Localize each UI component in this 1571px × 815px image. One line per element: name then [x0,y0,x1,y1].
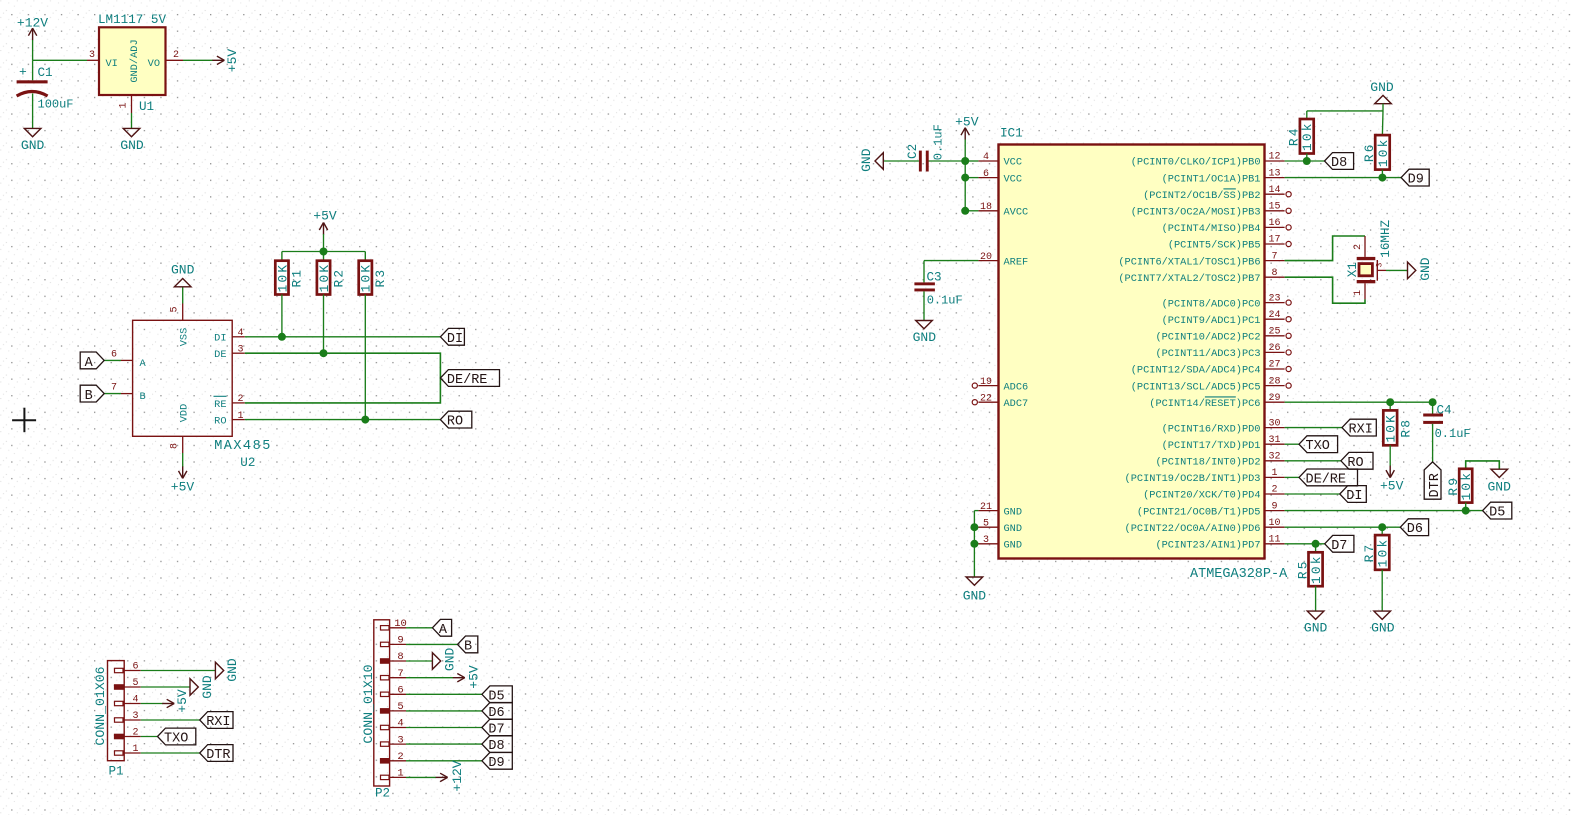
svg-text:10K: 10K [317,263,332,293]
svg-text:B: B [85,389,93,404]
svg-text:GND: GND [1004,523,1023,535]
svg-text:31: 31 [1268,435,1280,446]
svg-text:GND: GND [1418,257,1433,281]
svg-text:(PCINT0/CLKO/ICP1)PB0: (PCINT0/CLKO/ICP1)PB0 [1131,157,1261,169]
svg-text:R2: R2 [331,268,346,288]
svg-text:+5V: +5V [955,115,979,130]
svg-text:C4: C4 [1437,404,1452,418]
svg-text:19: 19 [980,377,992,388]
svg-text:18: 18 [980,202,992,213]
svg-text:C1: C1 [38,66,53,80]
svg-text:DE/RE: DE/RE [447,373,488,388]
svg-text:3: 3 [132,711,138,722]
svg-text:(PCINT18/INT0)PD2: (PCINT18/INT0)PD2 [1155,457,1260,469]
svg-text:GND: GND [1371,621,1395,636]
svg-text:VSS: VSS [179,328,191,347]
svg-text:DE: DE [214,349,226,361]
svg-text:(PCINT21/OC0B/T1)PD5: (PCINT21/OC0B/T1)PD5 [1137,506,1261,518]
svg-text:AREF: AREF [1004,256,1029,268]
svg-text:(PCINT22/OC0A/AIN0)PD6: (PCINT22/OC0A/AIN0)PD6 [1125,523,1261,535]
svg-text:16MHZ: 16MHZ [1379,219,1393,257]
svg-text:10k: 10k [1300,121,1315,151]
svg-text:1: 1 [119,102,130,108]
svg-text:D5: D5 [1489,506,1505,521]
svg-text:P1: P1 [109,765,124,779]
svg-text:2: 2 [173,50,179,61]
svg-text:GND: GND [1304,621,1328,636]
svg-text:10K: 10K [275,263,290,293]
svg-text:+5V: +5V [467,665,482,689]
svg-text:6: 6 [397,685,403,697]
svg-text:VDD: VDD [179,404,191,423]
svg-text:10: 10 [394,618,407,630]
svg-text:5: 5 [983,518,989,529]
svg-text:(PCINT12/SDA/ADC4)PC4: (PCINT12/SDA/ADC4)PC4 [1131,365,1261,377]
svg-text:32: 32 [1268,452,1280,463]
svg-text:3: 3 [983,535,989,546]
svg-text:D6: D6 [1407,522,1423,537]
svg-text:13: 13 [1268,168,1280,179]
svg-text:0.1uF: 0.1uF [927,294,963,308]
svg-text:(PCINT16/RXD)PD0: (PCINT16/RXD)PD0 [1162,423,1261,435]
svg-text:5: 5 [397,701,403,713]
svg-text:D7: D7 [1331,539,1347,554]
svg-text:U1: U1 [139,100,154,114]
svg-text:GND: GND [443,648,458,672]
svg-text:10K: 10K [359,263,374,293]
svg-text:R9: R9 [1446,476,1461,496]
svg-text:10: 10 [1268,518,1280,529]
svg-text:R8: R8 [1398,418,1413,438]
svg-text:R1: R1 [290,268,305,288]
svg-text:8: 8 [1271,268,1277,279]
svg-text:2: 2 [237,394,243,405]
svg-text:3: 3 [1376,262,1385,267]
svg-text:GND: GND [1370,80,1394,95]
svg-text:GND: GND [1004,506,1023,518]
svg-text:(PCINT17/TXD)PD1: (PCINT17/TXD)PD1 [1162,440,1261,452]
svg-text:(PCINT11/ADC3)PC3: (PCINT11/ADC3)PC3 [1155,348,1260,360]
svg-text:U2: U2 [240,456,255,470]
svg-text:6: 6 [983,169,989,180]
svg-text:1: 1 [397,768,403,780]
svg-text:4: 4 [237,328,243,339]
svg-text:(PCINT23/AIN1)PD7: (PCINT23/AIN1)PD7 [1155,540,1260,552]
svg-text:R6: R6 [1362,142,1377,162]
svg-text:7: 7 [397,668,403,680]
svg-text:22: 22 [980,393,992,404]
svg-text:(PCINT7/XTAL2/TOSC2)PB7: (PCINT7/XTAL2/TOSC2)PB7 [1118,273,1260,285]
svg-text:VO: VO [148,58,160,70]
svg-text:RO: RO [447,415,463,430]
svg-text:DTR: DTR [1428,473,1443,497]
svg-text:VCC: VCC [1004,173,1023,185]
svg-text:RXI: RXI [206,715,230,730]
svg-text:(PCINT9/ADC1)PC1: (PCINT9/ADC1)PC1 [1162,315,1261,327]
svg-text:DE/RE: DE/RE [1306,472,1347,487]
svg-text:A: A [85,356,94,371]
svg-text:27: 27 [1268,360,1280,371]
svg-text:2: 2 [1353,244,1364,250]
svg-text:DI: DI [214,333,226,345]
svg-text:17: 17 [1268,235,1280,246]
svg-text:15: 15 [1268,202,1280,213]
svg-text:GND: GND [859,148,874,172]
svg-text:IC1: IC1 [1000,127,1023,141]
svg-text:ADC6: ADC6 [1004,381,1029,393]
svg-text:B: B [464,639,472,654]
svg-text:GND: GND [1487,480,1511,495]
svg-text:4: 4 [983,152,989,163]
svg-text:4: 4 [132,695,138,706]
svg-text:2: 2 [397,751,403,763]
svg-text:1: 1 [1353,290,1364,296]
svg-text:3: 3 [237,344,243,355]
svg-text:TXO: TXO [1306,439,1330,454]
svg-text:+5V: +5V [171,480,195,495]
svg-text:30: 30 [1268,418,1280,429]
svg-text:20: 20 [980,252,992,263]
svg-text:14: 14 [1268,185,1280,196]
svg-text:10k: 10k [1309,554,1324,584]
svg-text:1: 1 [237,411,243,422]
svg-text:R3: R3 [373,268,388,288]
svg-text:0.1uF: 0.1uF [932,124,946,160]
svg-text:4: 4 [397,718,403,730]
svg-text:(PCINT5/SCK)PB5: (PCINT5/SCK)PB5 [1168,240,1261,252]
svg-text:(PCINT8/ADC0)PC0: (PCINT8/ADC0)PC0 [1162,298,1261,310]
svg-text:11: 11 [1268,535,1280,546]
svg-text:DTR: DTR [206,748,230,763]
svg-text:R7: R7 [1362,543,1377,563]
svg-text:5: 5 [132,678,138,689]
svg-text:3: 3 [89,50,95,61]
svg-text:(PCINT14/RESET)PC6: (PCINT14/RESET)PC6 [1149,398,1260,410]
svg-text:GND: GND [225,658,240,682]
svg-text:25: 25 [1268,327,1280,338]
svg-text:6: 6 [132,662,138,673]
svg-text:8: 8 [170,443,181,449]
svg-text:10k: 10k [1459,471,1474,501]
svg-text:28: 28 [1268,376,1280,387]
svg-text:D9: D9 [1408,173,1424,188]
svg-text:+5V: +5V [225,49,240,73]
svg-text:+5V: +5V [175,689,190,713]
svg-text:ATMEGA328P-A: ATMEGA328P-A [1190,567,1288,582]
svg-text:23: 23 [1268,293,1280,304]
svg-text:+: + [19,65,27,80]
svg-text:2: 2 [1271,485,1277,496]
svg-text:GND: GND [963,589,987,604]
svg-text:(PCINT1/OC1A)PB1: (PCINT1/OC1A)PB1 [1162,173,1261,185]
svg-text:(PCINT13/SCL/ADC5)PC5: (PCINT13/SCL/ADC5)PC5 [1131,381,1261,393]
svg-text:D8: D8 [1331,156,1347,171]
svg-text:(PCINT6/XTAL1/TOSC1)PB6: (PCINT6/XTAL1/TOSC1)PB6 [1118,256,1260,268]
svg-text:DI: DI [1346,489,1362,504]
svg-text:C2: C2 [906,144,920,159]
svg-text:5: 5 [170,306,181,312]
svg-text:LM1117 5V: LM1117 5V [98,13,166,27]
svg-text:(PCINT3/OC2A/MOSI)PB3: (PCINT3/OC2A/MOSI)PB3 [1131,207,1261,219]
svg-text:GND: GND [120,138,144,153]
svg-text:2: 2 [132,728,138,739]
svg-text:(PCINT19/OC2B/INT1)PD3: (PCINT19/OC2B/INT1)PD3 [1125,473,1261,485]
svg-text:GND: GND [171,262,195,277]
svg-text:A: A [140,358,147,370]
svg-text:(PCINT20/XCK/T0)PD4: (PCINT20/XCK/T0)PD4 [1143,490,1260,502]
svg-text:RXI: RXI [1349,423,1373,438]
svg-text:+12V: +12V [450,760,465,791]
svg-text:7: 7 [1271,251,1277,262]
svg-text:CONN_01X06: CONN_01X06 [93,666,108,745]
svg-text:10K: 10K [1384,413,1399,443]
svg-text:VCC: VCC [1004,157,1023,169]
svg-text:3: 3 [397,734,403,746]
svg-text:D9: D9 [488,756,504,771]
svg-text:TXO: TXO [164,732,188,747]
svg-text:21: 21 [980,502,992,513]
svg-text:+5V: +5V [313,209,337,224]
svg-text:100uF: 100uF [38,98,74,112]
svg-text:RO: RO [214,416,226,428]
svg-text:(PCINT10/ADC2)PC2: (PCINT10/ADC2)PC2 [1155,332,1260,344]
svg-text:AVCC: AVCC [1004,207,1029,219]
svg-text:1: 1 [132,744,138,755]
svg-text:(PCINT4/MISO)PB4: (PCINT4/MISO)PB4 [1162,223,1261,235]
svg-text:ADC7: ADC7 [1004,398,1029,410]
svg-text:29: 29 [1268,393,1280,404]
svg-text:8: 8 [397,651,403,663]
svg-text:10k: 10k [1376,137,1391,167]
svg-text:16: 16 [1268,218,1280,229]
svg-text:9: 9 [1271,501,1277,512]
svg-text:GND/ADJ: GND/ADJ [129,39,141,82]
svg-text:VI: VI [106,58,118,70]
svg-text:1: 1 [1271,468,1277,479]
svg-text:R5: R5 [1295,559,1310,579]
svg-text:GND: GND [913,330,937,345]
svg-text:0.1uF: 0.1uF [1435,427,1471,441]
svg-text:26: 26 [1268,343,1280,354]
svg-text:24: 24 [1268,310,1280,321]
svg-text:B: B [140,391,146,403]
svg-text:+5V: +5V [1380,479,1404,494]
svg-text:10k: 10k [1376,538,1391,568]
svg-text:7: 7 [111,383,117,394]
svg-text:6: 6 [111,349,117,360]
svg-text:12: 12 [1268,152,1280,163]
svg-text:A: A [439,623,448,638]
svg-text:9: 9 [397,635,403,647]
svg-text:DI: DI [447,332,463,347]
svg-text:CONN_01X10: CONN_01X10 [361,664,376,743]
svg-text:GND: GND [200,675,215,699]
svg-text:X1: X1 [1346,262,1360,277]
svg-text:RE: RE [214,399,226,411]
svg-text:P2: P2 [375,787,390,801]
svg-text:R4: R4 [1287,126,1302,146]
svg-text:GND: GND [1004,540,1023,552]
svg-text:GND: GND [21,138,45,153]
svg-text:(PCINT2/OC1B/SS)PB2: (PCINT2/OC1B/SS)PB2 [1143,190,1260,202]
svg-text:MAX485: MAX485 [214,439,272,454]
